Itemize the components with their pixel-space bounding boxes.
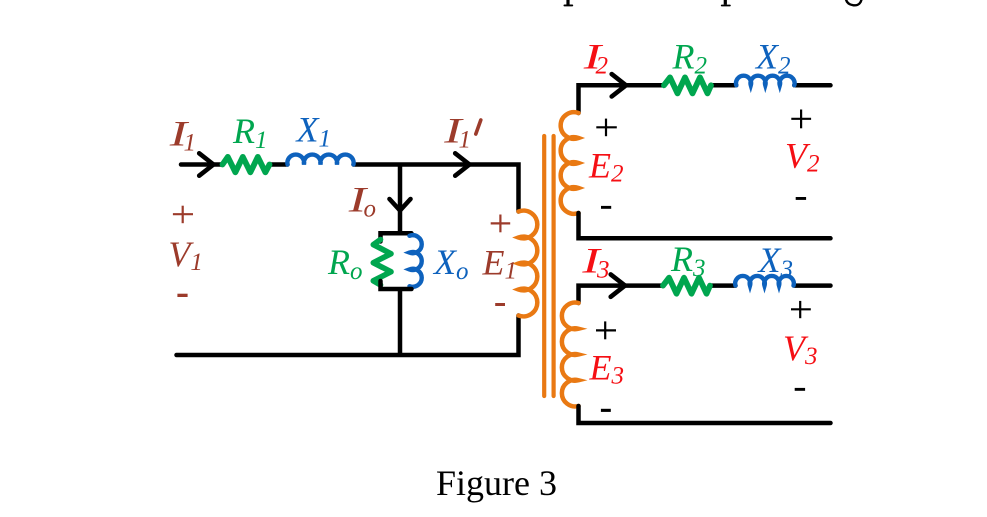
label plus V3 [791,301,811,318]
svg-text:V1: V1 [168,234,203,276]
wire secondary2 bottom [579,213,831,238]
wire primary top [181,165,519,212]
resistor R2 [664,77,711,93]
svg-text:E3: E3 [589,348,625,390]
transformer core line right [551,136,555,396]
inductor Xo [410,235,422,287]
label plus E3 [596,321,616,339]
inductor X3 [735,276,794,286]
label minus V2 [796,197,806,200]
label minus E1 [495,303,505,306]
svg-text:1: 1 [184,130,197,157]
winding E2 [561,112,579,214]
label minus E3 [601,409,611,412]
svg-text:E1: E1 [482,243,518,285]
svg-text:R3: R3 [670,239,706,282]
label minus V3 [795,388,805,391]
wire secondary3 bottom [579,406,831,423]
wire primary bottom [177,316,519,356]
svg-text:2: 2 [596,52,609,79]
svg-text:Xo: Xo [432,242,469,285]
resistor Ro [373,240,391,285]
winding E3 [562,303,579,407]
svg-text:R2: R2 [672,36,708,79]
label plus E2 [596,119,617,137]
svg-text:o: o [364,196,377,223]
svg-text:1: 1 [459,127,472,154]
resistor R3 [663,278,710,294]
label plus V1 [173,206,193,224]
label minus E2 [601,206,611,209]
top cropped text descender p2 [721,0,731,6]
arrow I1 [199,153,213,175]
arrow I2 [612,74,626,96]
transformer core line left [542,136,546,396]
svg-text:X2: X2 [754,36,791,79]
svg-text:Ro: Ro [327,242,363,285]
top cropped text descender p1 [564,0,574,6]
arrow I1prime [455,153,469,175]
svg-text:Figure 3: Figure 3 [436,463,557,503]
top cropped text descender g [846,0,862,5]
wire secondary2 top [579,85,831,113]
wire secondary3 top [579,286,831,303]
svg-text:3: 3 [596,257,610,284]
wire shunt top [398,165,403,234]
svg-text:V3: V3 [783,328,818,370]
inductor X1 [287,155,353,165]
wire shunt bottom [398,289,403,355]
node parallel top bar [381,233,412,241]
inductor X2 [736,76,795,86]
label plus V2 [791,110,811,129]
svg-text:R1: R1 [232,111,268,154]
winding E1 [519,211,538,317]
label minus V1 [177,294,187,297]
resistor R1 [223,157,270,172]
svg-text:X1: X1 [295,110,332,153]
arrow I3 [611,274,625,296]
node parallel bottom bar [381,281,412,289]
svg-text:V2: V2 [785,135,820,177]
svg-text:X3: X3 [757,240,794,283]
label plus E1 [491,215,511,233]
arrow Io [390,199,411,211]
svg-text:E2: E2 [588,146,624,188]
